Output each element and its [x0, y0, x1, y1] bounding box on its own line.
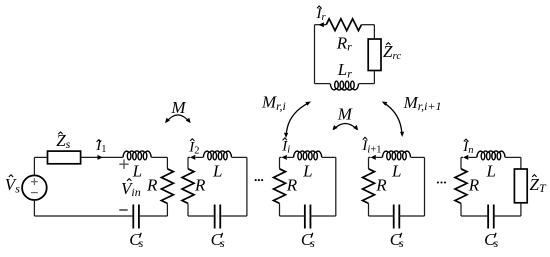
svg-text:M: M: [170, 98, 186, 117]
impedance Zrc: [368, 39, 381, 71]
svg-text:M: M: [337, 105, 353, 124]
wire bottom right resonator i: [310, 215, 335, 217]
wire arrow to Li1: [376, 156, 382, 158]
wire arrow to L2: [196, 156, 204, 158]
svg-text:s: s: [220, 236, 225, 250]
resistor Ri: [274, 169, 286, 204]
svg-text:s: s: [310, 236, 315, 250]
wire right bottom stub resonator n: [520, 203, 522, 216]
wire arrow to Li: [287, 156, 293, 158]
wire corner resonator i: [280, 156, 282, 158]
svg-text:L: L: [391, 162, 401, 181]
wire Ln to right side: [505, 156, 521, 158]
inductor L2: [203, 151, 231, 157]
impedance ZT: [514, 169, 527, 203]
coupling arrow Mri1 between reader and resonator i+1: [384, 103, 402, 135]
arrow current I2: [190, 155, 195, 160]
resistor Rn: [455, 169, 467, 204]
coupling arrow Mri between reader and resonator i: [286, 103, 309, 136]
inductor Li1: [382, 151, 410, 157]
arrow current Ii1: [371, 155, 376, 160]
wire right-top of reader loop: [373, 25, 375, 39]
wire Rn bottom stub: [460, 203, 462, 216]
coupling arrow M between resonator 1 and 2: [166, 115, 189, 122]
coupling arrow M between resonator i and i+1: [334, 124, 357, 130]
wire Cs1 to R1 bottom: [139, 215, 168, 217]
voltage source Vs: [22, 175, 47, 200]
wire Ri1 bottom stub: [368, 203, 370, 216]
wire bottom left resonator n: [461, 215, 488, 217]
arrow current In: [463, 155, 468, 160]
wire R1 bottom stub: [166, 203, 168, 216]
ellipsis dots left: [255, 179, 264, 181]
wire R2 top stub: [187, 157, 189, 168]
svg-text:s: s: [493, 236, 498, 250]
resistor R2: [182, 169, 194, 204]
wire arrow to Ln: [469, 156, 477, 158]
svg-text:R: R: [194, 176, 206, 195]
wire Ri top stub: [279, 157, 281, 168]
wire right side resonator i1: [424, 157, 426, 216]
wire Rn top stub: [460, 157, 462, 168]
wire bottom right resonator n: [494, 215, 521, 217]
wire R1 top stub: [166, 157, 168, 168]
wire Li to right side: [322, 156, 336, 158]
capacitor Csn: [488, 205, 494, 229]
capacitor Csi1: [394, 205, 400, 229]
svg-text:R: R: [146, 176, 158, 195]
arrow current I1: [98, 155, 103, 160]
svg-text:L: L: [485, 162, 495, 181]
wire right top stub resonator n: [520, 157, 522, 169]
wire bottom right resonator 2: [220, 215, 247, 217]
resistor R1: [161, 169, 173, 204]
svg-text:R: R: [375, 176, 387, 195]
ellipsis dots right: [437, 181, 446, 183]
wire corner resonator 2: [188, 156, 190, 158]
wire source to Zs: [34, 156, 47, 158]
wire source bottom lead: [33, 200, 35, 216]
minus sign Vin: [119, 209, 127, 211]
impedance Zs: [48, 151, 81, 164]
wire source top lead: [33, 157, 35, 175]
wire Ri1 top stub: [368, 157, 370, 168]
svg-text:L: L: [302, 162, 312, 181]
plus sign Vin: [119, 160, 128, 169]
capacitor Cs1: [133, 205, 139, 229]
wire bottom-right of reader loop: [359, 83, 375, 85]
wire Ri bottom stub: [279, 203, 281, 216]
wire L2 to right side: [232, 156, 247, 158]
wire right-bottom of reader loop: [373, 71, 375, 84]
wire bottom right resonator i1: [399, 215, 424, 217]
wire bottom left resonator i: [280, 215, 305, 217]
wire right side resonator i: [335, 157, 337, 216]
wire left side of reader loop: [314, 25, 316, 84]
wire top-right of reader loop: [361, 24, 374, 26]
svg-text:s: s: [399, 236, 404, 250]
wire R2 bottom stub: [187, 203, 189, 216]
resistor Rr: [326, 19, 361, 31]
inductor Li: [294, 151, 322, 157]
inductor L1: [123, 151, 151, 157]
svg-text:s: s: [139, 236, 144, 250]
wire bottom-left of reader loop: [315, 83, 331, 85]
wire bottom left resonator i1: [369, 215, 394, 217]
resistor Ri1: [363, 169, 375, 204]
wire bottom source to Cs1: [34, 215, 133, 217]
inductor Ln: [477, 151, 505, 157]
wire L1 to R1 corner: [151, 156, 167, 158]
arrow current Ir: [319, 22, 324, 27]
wire top-left of reader loop: [315, 24, 327, 26]
wire right side resonator 2: [246, 157, 248, 216]
inductor Lr: [330, 84, 358, 90]
svg-text:R: R: [468, 176, 480, 195]
svg-text:R: R: [286, 176, 298, 195]
svg-text:L: L: [132, 162, 142, 181]
wire corner resonator i1: [369, 156, 371, 158]
capacitor Cs2: [215, 205, 221, 229]
arrow current Ii: [282, 155, 287, 160]
wire bottom left resonator 2: [188, 215, 215, 217]
capacitor Csi: [305, 205, 311, 229]
wire Zs to L1: [81, 156, 123, 158]
wire Li1 to right side: [411, 156, 425, 158]
svg-text:L: L: [212, 162, 222, 181]
wire corner resonator n: [461, 156, 463, 158]
